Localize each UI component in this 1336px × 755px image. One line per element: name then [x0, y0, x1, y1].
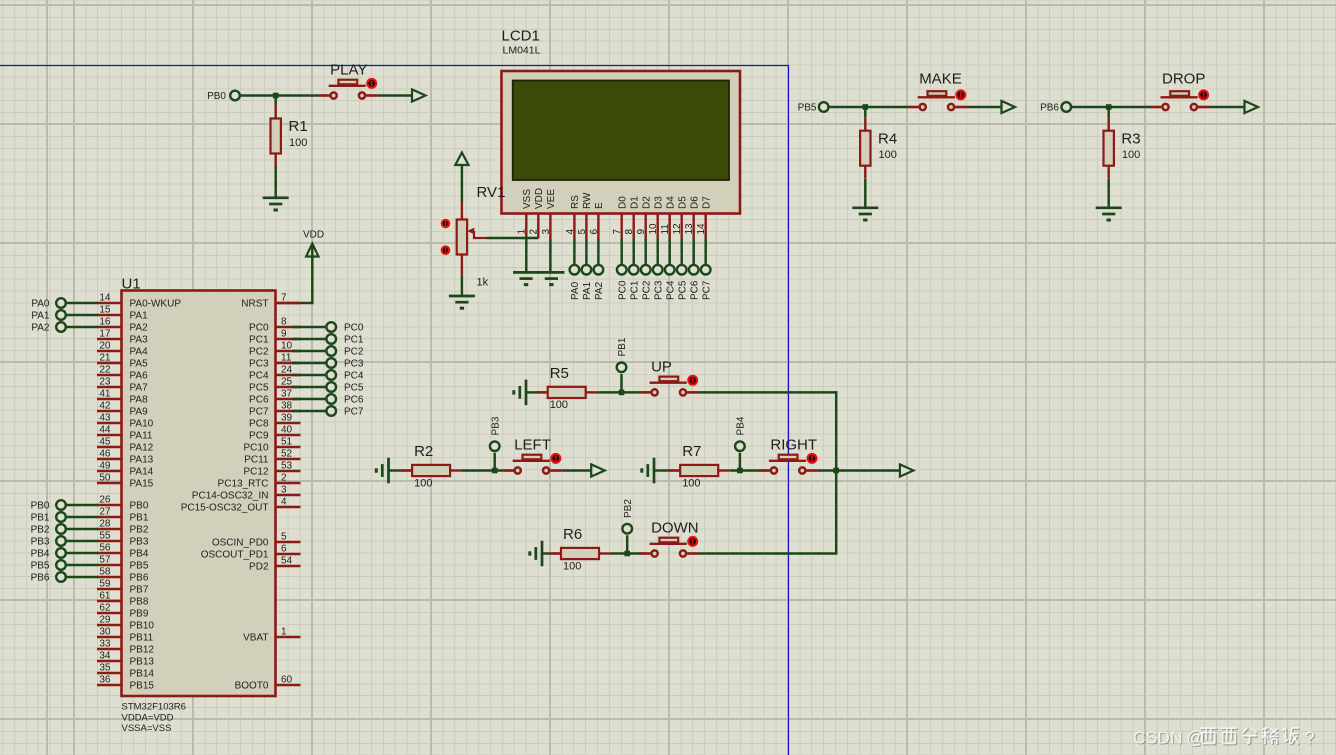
svg-text:26: 26 [99, 495, 111, 506]
svg-text:PA8: PA8 [130, 395, 149, 406]
svg-text:PA13: PA13 [130, 455, 154, 466]
svg-text:PA0: PA0 [31, 299, 50, 310]
svg-text:PB3: PB3 [130, 537, 149, 548]
svg-text:39: 39 [281, 413, 293, 424]
svg-text:53: 53 [281, 461, 293, 472]
svg-text:PB2: PB2 [130, 525, 149, 536]
svg-text:6: 6 [589, 229, 600, 235]
svg-text:PD2: PD2 [249, 562, 269, 573]
svg-text:45: 45 [99, 437, 111, 448]
svg-text:PC0: PC0 [344, 323, 364, 334]
svg-text:55: 55 [99, 531, 111, 542]
svg-text:14: 14 [99, 293, 111, 304]
svg-text:PB3: PB3 [490, 416, 501, 435]
svg-text:VDD: VDD [303, 230, 324, 241]
svg-text:40: 40 [281, 425, 293, 436]
svg-text:11: 11 [281, 353, 292, 364]
svg-text:10: 10 [648, 223, 659, 235]
svg-text:PB9: PB9 [130, 609, 149, 620]
svg-text:PB1: PB1 [31, 513, 50, 524]
svg-text:PB6: PB6 [1040, 103, 1059, 114]
svg-text:R2: R2 [414, 443, 433, 460]
svg-text:PA14: PA14 [130, 467, 154, 478]
svg-text:16: 16 [99, 317, 111, 328]
svg-text:PC5: PC5 [344, 383, 364, 394]
svg-text:OSCOUT_PD1: OSCOUT_PD1 [201, 550, 269, 561]
svg-text:VSSA=VSS: VSSA=VSS [122, 723, 172, 734]
svg-text:PC5: PC5 [677, 280, 688, 300]
svg-text:NRST: NRST [241, 299, 268, 310]
svg-text:6: 6 [281, 544, 287, 555]
svg-text:24: 24 [281, 365, 293, 376]
svg-text:PA12: PA12 [130, 443, 154, 454]
svg-text:2: 2 [529, 229, 540, 235]
svg-text:33: 33 [99, 639, 111, 650]
svg-text:PC7: PC7 [344, 407, 364, 418]
svg-text:VEE: VEE [546, 189, 557, 209]
svg-text:RS: RS [570, 195, 581, 209]
svg-text:PC13_RTC: PC13_RTC [218, 479, 269, 490]
svg-text:PC10: PC10 [243, 443, 268, 454]
svg-text:PA11: PA11 [130, 431, 153, 442]
svg-text:LCD1: LCD1 [502, 28, 540, 45]
svg-text:22: 22 [99, 365, 111, 376]
svg-text:1: 1 [517, 229, 528, 235]
svg-text:E: E [594, 202, 605, 209]
svg-text:PC7: PC7 [249, 407, 269, 418]
svg-text:D6: D6 [689, 196, 700, 209]
svg-text:RW: RW [582, 192, 593, 209]
svg-text:3: 3 [281, 485, 287, 496]
svg-text:7: 7 [612, 229, 623, 235]
svg-text:PB13: PB13 [130, 657, 155, 668]
svg-text:34: 34 [99, 651, 111, 662]
svg-text:VSS: VSS [522, 189, 533, 209]
svg-text:PA2: PA2 [130, 323, 149, 334]
svg-text:23: 23 [99, 377, 111, 388]
svg-text:PB0: PB0 [207, 91, 226, 102]
svg-text:D5: D5 [677, 196, 688, 209]
svg-text:3: 3 [541, 229, 552, 235]
svg-text:PA2: PA2 [594, 281, 605, 300]
svg-text:VDD: VDD [534, 188, 545, 209]
svg-text:PA1: PA1 [582, 281, 593, 300]
svg-text:20: 20 [99, 341, 111, 352]
svg-text:PC6: PC6 [689, 280, 700, 300]
svg-text:PC3: PC3 [249, 359, 269, 370]
svg-text:29: 29 [99, 615, 111, 626]
svg-text:100: 100 [879, 149, 897, 161]
svg-text:PC1: PC1 [344, 335, 364, 346]
svg-text:PLAY: PLAY [330, 62, 367, 79]
svg-text:9: 9 [636, 229, 647, 235]
svg-text:10: 10 [281, 341, 293, 352]
svg-text:R3: R3 [1121, 130, 1140, 147]
svg-text:PC0: PC0 [249, 323, 269, 334]
svg-text:LEFT: LEFT [514, 437, 551, 454]
svg-text:PC3: PC3 [344, 359, 364, 370]
svg-text:CSDN: CSDN [1133, 728, 1183, 748]
svg-text:PA1: PA1 [130, 311, 149, 322]
svg-text:8: 8 [624, 229, 635, 235]
svg-text:R4: R4 [878, 130, 897, 147]
svg-text:30: 30 [99, 627, 111, 638]
svg-text:PC4: PC4 [665, 280, 676, 300]
svg-text:PA5: PA5 [130, 359, 149, 370]
svg-text:PB2: PB2 [31, 525, 50, 536]
svg-text:14: 14 [696, 223, 707, 235]
svg-text:9: 9 [281, 329, 287, 340]
svg-text:PB4: PB4 [130, 549, 149, 560]
svg-text:41: 41 [99, 389, 111, 400]
svg-text:PC2: PC2 [344, 347, 364, 358]
svg-text:15: 15 [99, 305, 111, 316]
svg-text:61: 61 [99, 591, 111, 602]
svg-text:PC9: PC9 [249, 431, 269, 442]
svg-text:8: 8 [281, 317, 287, 328]
svg-text:PC8: PC8 [249, 419, 269, 430]
svg-text:43: 43 [99, 413, 111, 424]
svg-text:OSCIN_PD0: OSCIN_PD0 [212, 538, 269, 549]
svg-text:D2: D2 [641, 196, 652, 209]
svg-text:56: 56 [99, 543, 111, 554]
svg-text:?: ? [1305, 728, 1315, 748]
svg-text:100: 100 [414, 477, 432, 489]
svg-text:57: 57 [99, 555, 111, 566]
svg-text:46: 46 [99, 449, 111, 460]
svg-text:100: 100 [1122, 149, 1140, 161]
svg-text:PB11: PB11 [130, 633, 154, 644]
svg-text:PA15: PA15 [130, 479, 154, 490]
svg-text:21: 21 [99, 353, 111, 364]
svg-text:60: 60 [281, 675, 293, 686]
svg-text:36: 36 [99, 675, 111, 686]
svg-text:PB6: PB6 [130, 573, 149, 584]
svg-text:PC6: PC6 [249, 395, 269, 406]
svg-text:PB3: PB3 [31, 537, 50, 548]
svg-text:100: 100 [550, 399, 568, 411]
svg-text:35: 35 [99, 663, 111, 674]
svg-text:PB14: PB14 [130, 669, 155, 680]
svg-text:28: 28 [99, 519, 111, 530]
svg-text:R5: R5 [550, 365, 569, 382]
svg-text:5: 5 [577, 229, 588, 235]
svg-text:PC15-OSC32_OUT: PC15-OSC32_OUT [181, 503, 269, 514]
svg-text:DOWN: DOWN [651, 520, 699, 537]
svg-text:PC1: PC1 [249, 335, 269, 346]
svg-text:54: 54 [281, 556, 293, 567]
svg-text:D4: D4 [665, 196, 676, 209]
svg-text:PB0: PB0 [130, 501, 149, 512]
svg-text:PC14-OSC32_IN: PC14-OSC32_IN [192, 491, 269, 502]
svg-text:25: 25 [281, 377, 293, 388]
svg-text:100: 100 [682, 477, 700, 489]
svg-text:PB7: PB7 [130, 585, 149, 596]
svg-text:52: 52 [281, 449, 293, 460]
svg-text:PC2: PC2 [249, 347, 269, 358]
svg-text:PB15: PB15 [130, 681, 155, 692]
svg-text:4: 4 [281, 497, 287, 508]
svg-text:PA0: PA0 [570, 281, 581, 300]
svg-text:PC4: PC4 [249, 371, 269, 382]
svg-text:51: 51 [281, 437, 293, 448]
svg-text:100: 100 [563, 560, 581, 572]
svg-text:VDDA=VDD: VDDA=VDD [122, 713, 174, 724]
svg-text:PA10: PA10 [130, 419, 154, 430]
svg-text:D3: D3 [653, 196, 664, 209]
svg-text:PB4: PB4 [736, 416, 747, 435]
svg-text:D1: D1 [629, 196, 640, 209]
svg-text:STM32F103R6: STM32F103R6 [122, 702, 186, 713]
svg-text:PB6: PB6 [31, 573, 50, 584]
svg-text:PC12: PC12 [243, 467, 268, 478]
svg-text:58: 58 [99, 567, 111, 578]
svg-text:PA0-WKUP: PA0-WKUP [130, 299, 182, 310]
svg-text:MAKE: MAKE [919, 71, 962, 88]
svg-text:PA9: PA9 [130, 407, 149, 418]
svg-text:44: 44 [99, 425, 111, 436]
svg-text:BOOT0: BOOT0 [235, 681, 269, 692]
svg-text:D0: D0 [617, 196, 628, 209]
svg-text:42: 42 [99, 401, 111, 412]
svg-text:11: 11 [660, 224, 671, 235]
svg-text:59: 59 [99, 579, 111, 590]
svg-text:PA1: PA1 [31, 311, 50, 322]
svg-text:PB1: PB1 [617, 337, 628, 356]
svg-text:PC1: PC1 [629, 280, 640, 300]
svg-text:PA4: PA4 [130, 347, 149, 358]
svg-text:100: 100 [289, 137, 307, 149]
svg-text:PB4: PB4 [31, 549, 50, 560]
svg-text:R7: R7 [682, 443, 701, 460]
svg-text:PB1: PB1 [130, 513, 149, 524]
svg-text:VBAT: VBAT [243, 633, 268, 644]
svg-text:PC6: PC6 [344, 395, 364, 406]
svg-text:PB2: PB2 [623, 499, 634, 518]
svg-text:D7: D7 [701, 196, 712, 209]
svg-text:UP: UP [651, 359, 672, 376]
svg-text:37: 37 [281, 389, 293, 400]
svg-text:12: 12 [672, 223, 683, 235]
svg-text:50: 50 [99, 473, 111, 484]
svg-text:4: 4 [565, 229, 576, 235]
svg-text:PB8: PB8 [130, 597, 149, 608]
svg-text:PB10: PB10 [130, 621, 155, 632]
svg-text:13: 13 [684, 223, 695, 235]
svg-text:PB5: PB5 [31, 561, 50, 572]
svg-text:RIGHT: RIGHT [770, 437, 817, 454]
svg-text:5: 5 [281, 532, 287, 543]
svg-text:PC0: PC0 [617, 280, 628, 300]
svg-text:38: 38 [281, 401, 293, 412]
svg-text:PC11: PC11 [244, 455, 269, 466]
svg-text:PC2: PC2 [641, 280, 652, 300]
svg-text:2: 2 [281, 473, 287, 484]
svg-text:RV1: RV1 [477, 184, 506, 201]
svg-text:PC4: PC4 [344, 371, 364, 382]
svg-text:PC3: PC3 [653, 280, 664, 300]
svg-text:PA6: PA6 [130, 371, 149, 382]
svg-text:PC5: PC5 [249, 383, 269, 394]
svg-text:R1: R1 [289, 118, 308, 135]
svg-text:PA2: PA2 [31, 323, 50, 334]
svg-text:PB12: PB12 [130, 645, 155, 656]
svg-text:PB5: PB5 [130, 561, 149, 572]
svg-text:DROP: DROP [1162, 71, 1205, 88]
svg-text:PB5: PB5 [798, 103, 817, 114]
svg-text:PA3: PA3 [130, 335, 149, 346]
svg-text:62: 62 [99, 603, 111, 614]
svg-text:27: 27 [99, 507, 111, 518]
svg-text:PB0: PB0 [31, 501, 50, 512]
svg-text:17: 17 [99, 329, 111, 340]
svg-text:LM041L: LM041L [503, 45, 541, 57]
svg-text:1: 1 [281, 627, 287, 638]
svg-text:R6: R6 [563, 526, 582, 543]
svg-text:PC7: PC7 [701, 280, 712, 300]
svg-text:1k: 1k [477, 277, 489, 289]
svg-text:49: 49 [99, 461, 111, 472]
svg-text:PA7: PA7 [130, 383, 149, 394]
